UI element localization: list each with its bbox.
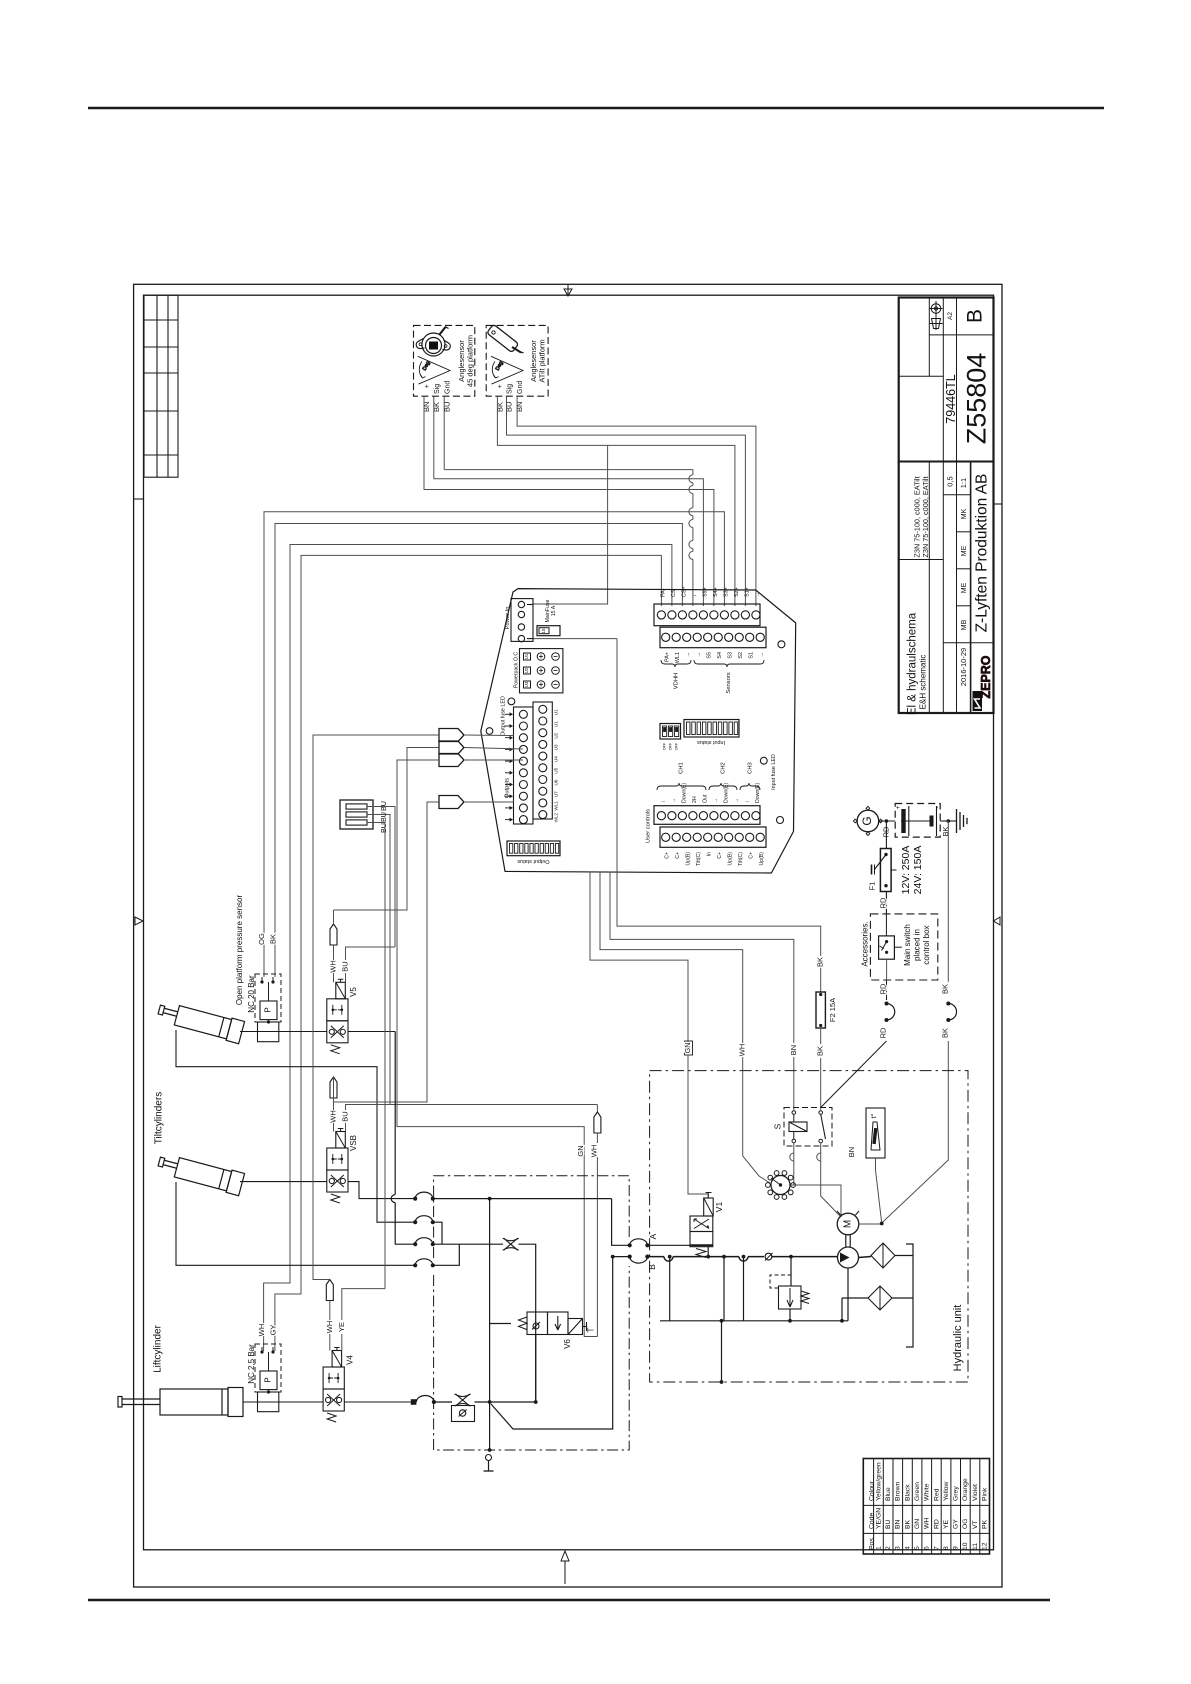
svg-text:CH1: CH1 bbox=[679, 762, 685, 774]
tank return risers bbox=[669, 1257, 671, 1321]
svg-text:Input fuse LED: Input fuse LED bbox=[771, 754, 777, 790]
svg-text:VSB: VSB bbox=[349, 1135, 358, 1151]
svg-text:12: 12 bbox=[982, 1542, 989, 1550]
svg-text:VT: VT bbox=[972, 1520, 979, 1529]
riser V6 feed bbox=[489, 1199, 491, 1402]
svg-text:V1: V1 bbox=[714, 1202, 724, 1213]
svg-text:GN: GN bbox=[576, 1145, 585, 1156]
terminal strip sensors row 1 bbox=[654, 604, 760, 626]
connector pill V6 WH bbox=[594, 1112, 601, 1133]
svg-text:→: → bbox=[755, 592, 761, 597]
coupling RD bbox=[885, 1002, 889, 1006]
wire junction to tank vent bbox=[489, 1402, 491, 1450]
svg-text:M: M bbox=[843, 1220, 854, 1228]
LED bar output status bbox=[507, 841, 560, 856]
svg-text:Open platform pressure sensor: Open platform pressure sensor bbox=[235, 895, 244, 1006]
terminal strip user controls row 2 bbox=[660, 827, 766, 847]
wire sensor1 BK bbox=[434, 396, 704, 606]
temperature sensor t bbox=[866, 1108, 885, 1158]
svg-text:ME: ME bbox=[961, 582, 968, 593]
valve V4 spring bbox=[327, 1413, 336, 1422]
svg-text:Gnd: Gnd bbox=[444, 381, 451, 394]
wire plug2 to V5 coil bbox=[334, 748, 440, 911]
wire restrictor to drop bbox=[518, 1244, 535, 1402]
svg-text:MB: MB bbox=[961, 619, 968, 630]
svg-text:Z-Lyften Produktion AB: Z-Lyften Produktion AB bbox=[974, 474, 991, 633]
wire battery to ground bbox=[940, 820, 956, 822]
brace CH3 bbox=[740, 783, 760, 790]
svg-text:BN: BN bbox=[895, 1519, 902, 1529]
wire power feed 2 bbox=[533, 638, 617, 640]
wire pump to filter bbox=[859, 1257, 872, 1258]
wire WH to thermal switch bbox=[743, 1057, 770, 1183]
svg-text:15: 15 bbox=[541, 628, 546, 634]
svg-text:ME: ME bbox=[961, 545, 968, 556]
wire BN from PCB bbox=[610, 871, 794, 1043]
svg-text:C+: C+ bbox=[717, 852, 723, 859]
svg-text:U2: U2 bbox=[554, 732, 559, 738]
anglesensor 45 deg platform box bbox=[414, 325, 475, 396]
svg-text:BU: BU bbox=[379, 812, 388, 822]
wire relay to motor bbox=[821, 1143, 841, 1217]
svg-text:GN: GN bbox=[914, 1519, 921, 1529]
anglesensor ATilt platform box bbox=[486, 325, 548, 396]
svg-text:WH: WH bbox=[328, 1110, 337, 1123]
svg-text:Yellow/green: Yellow/green bbox=[875, 1462, 882, 1501]
svg-text:U7: U7 bbox=[554, 791, 559, 797]
svg-text:Hydraulic unit: Hydraulic unit bbox=[952, 1305, 964, 1372]
svg-text:Accessories.: Accessories. bbox=[860, 921, 869, 966]
svg-text:U6: U6 bbox=[554, 779, 559, 785]
wire t sensor to junction bbox=[876, 1158, 882, 1223]
svg-text:WL1: WL1 bbox=[675, 652, 681, 663]
anglesensor ATilt labels bbox=[497, 381, 524, 394]
tank rail bbox=[660, 1320, 848, 1322]
wire tilt1 rod line bbox=[176, 1030, 415, 1222]
centre arrow bottom bbox=[561, 1551, 569, 1584]
wire tilt2 piston to hops bbox=[348, 1182, 415, 1199]
coupling row 1 bbox=[413, 1197, 417, 1201]
wire power feed 1 bbox=[533, 445, 608, 604]
PCB mounting hole left bbox=[486, 728, 493, 735]
svg-text:CH3: CH3 bbox=[748, 762, 754, 774]
svg-text:Output fuse LED: Output fuse LED bbox=[500, 696, 506, 736]
wire plug4 to VSB coil bbox=[334, 802, 440, 1102]
wire VSB BU extension bbox=[390, 1104, 597, 1106]
wire GY riser bbox=[275, 555, 662, 1351]
svg-text:GN: GN bbox=[683, 1043, 692, 1054]
wire V6 WH to solenoid bbox=[596, 1133, 598, 1143]
wire row4 stub bbox=[433, 1244, 460, 1265]
wire BN to relay bbox=[793, 1057, 795, 1110]
connector pill V5 bbox=[330, 924, 337, 945]
label GN boxed bbox=[685, 1041, 693, 1055]
output plug 3 bbox=[439, 754, 464, 767]
svg-text:S5+: S5+ bbox=[702, 587, 708, 597]
svg-text:P: P bbox=[264, 1377, 273, 1382]
wire relief to tank bbox=[789, 1309, 791, 1321]
svg-text:NC 2,5 Bar: NC 2,5 Bar bbox=[247, 1344, 256, 1384]
svg-text:U1: U1 bbox=[524, 653, 529, 659]
wire RD below accessories bbox=[886, 980, 888, 1000]
wire lift branch to port B bbox=[491, 1257, 613, 1429]
wire V4 coil WH bbox=[329, 1301, 331, 1321]
svg-text:In: In bbox=[707, 852, 713, 856]
wire OG riser bbox=[264, 512, 724, 977]
svg-text:↓: ↓ bbox=[692, 594, 698, 597]
svg-text:CH2: CH2 bbox=[721, 762, 727, 774]
svg-text:8: 8 bbox=[943, 1546, 950, 1550]
coupling relay wire 2 bbox=[817, 1153, 821, 1161]
wire V1 bottom port drop bbox=[707, 1247, 709, 1257]
wire motor junction bbox=[859, 1223, 882, 1225]
coupling row 4 bbox=[413, 1263, 417, 1267]
svg-text:BU: BU bbox=[442, 402, 451, 412]
wire BU conn to V4 bbox=[367, 823, 385, 1289]
svg-text:12V: 250A: 12V: 250A bbox=[900, 846, 912, 895]
svg-text:↓: ↓ bbox=[660, 800, 666, 803]
wire RD diagonal to relay bbox=[821, 1041, 887, 1108]
relay S contacts bbox=[792, 1111, 796, 1115]
svg-text:S1+: S1+ bbox=[744, 587, 750, 597]
svg-text:U5: U5 bbox=[554, 767, 559, 773]
wire row1 to line A bbox=[433, 1198, 612, 1200]
first-angle projection symbol bbox=[930, 301, 943, 330]
wire V4 line to coupling bbox=[344, 1401, 411, 1403]
coupling BK bbox=[946, 1002, 950, 1006]
wire GN from PCB bbox=[590, 871, 688, 1045]
svg-text:WH: WH bbox=[924, 1518, 931, 1529]
svg-text:BK: BK bbox=[268, 934, 277, 944]
outer sheet frame bbox=[134, 284, 1002, 1587]
svg-text:S5: S5 bbox=[707, 652, 713, 659]
title block frame bbox=[899, 298, 994, 714]
svg-text:+: + bbox=[895, 805, 902, 809]
valve V6 spring bbox=[519, 1317, 528, 1330]
svg-text:ATilt platform: ATilt platform bbox=[537, 339, 546, 382]
tank rail drop bbox=[721, 1321, 723, 1382]
pump bbox=[838, 1247, 859, 1268]
svg-text:2016-10-29: 2016-10-29 bbox=[959, 648, 968, 686]
wire V6 port bbox=[490, 1323, 511, 1325]
svg-text:→: → bbox=[671, 798, 677, 803]
filter 2 out bbox=[892, 1297, 913, 1299]
svg-text:OG: OG bbox=[257, 933, 266, 945]
valve V6 body bbox=[527, 1312, 568, 1335]
svg-text:BN: BN bbox=[789, 1045, 798, 1055]
svg-text:BU: BU bbox=[504, 402, 513, 412]
svg-text:S2: S2 bbox=[738, 652, 744, 659]
fuse switch F1 bbox=[880, 849, 891, 892]
wire sensor2 BN bbox=[517, 396, 756, 606]
svg-text:PK: PK bbox=[982, 1519, 989, 1529]
wire VSB coil WH bbox=[333, 1098, 335, 1110]
wire BK to relay bbox=[820, 1028, 822, 1044]
PCB mounting hole top-right bbox=[778, 641, 785, 648]
svg-text:BN: BN bbox=[847, 1147, 856, 1157]
svg-text:10: 10 bbox=[962, 1542, 969, 1550]
valve V6 solenoid bbox=[568, 1319, 587, 1335]
pump suction bbox=[847, 1268, 849, 1321]
svg-text:2: 2 bbox=[885, 1546, 892, 1550]
brace Sensors bbox=[694, 660, 764, 667]
svg-text:1: 1 bbox=[875, 1546, 882, 1550]
tank vent symbol bbox=[486, 1455, 492, 1461]
reservoir bracket bbox=[906, 1244, 913, 1347]
svg-text:BU: BU bbox=[379, 823, 388, 833]
valve V1 port line bbox=[690, 1244, 713, 1246]
svg-text:CS: CS bbox=[671, 589, 677, 597]
svg-text:U3: U3 bbox=[554, 744, 559, 750]
motor shaft bbox=[845, 1235, 847, 1247]
svg-text:BK: BK bbox=[495, 402, 504, 412]
wire stubs PCB outputs to plugs bbox=[464, 734, 514, 737]
svg-text:B: B bbox=[647, 1264, 657, 1270]
svg-text:CS+: CS+ bbox=[681, 586, 687, 597]
svg-text:0,5: 0,5 bbox=[945, 476, 954, 486]
wire BU conn to VSB bbox=[367, 815, 390, 1105]
centre arrow top bbox=[564, 285, 572, 296]
valve VSB solenoid bbox=[336, 1132, 346, 1149]
svg-text:45 deg platform: 45 deg platform bbox=[465, 335, 474, 387]
PCB mounting hole bottom-right bbox=[777, 817, 784, 824]
wire BK to fuse F2 bbox=[820, 968, 822, 992]
tilt cylinder 1 bbox=[156, 999, 245, 1043]
svg-text:C+: C+ bbox=[665, 852, 671, 859]
wire relief feed bbox=[790, 1257, 792, 1286]
svg-text:WH: WH bbox=[738, 1044, 747, 1057]
svg-text:Out: Out bbox=[702, 794, 708, 803]
svg-text:U1: U1 bbox=[554, 721, 559, 727]
coupling row 3 bbox=[413, 1242, 417, 1246]
valve manifold dashed box bbox=[434, 1176, 630, 1258]
anglesensor ATilt wire labels bbox=[495, 402, 524, 412]
svg-text:Outputs: Outputs bbox=[505, 778, 511, 798]
svg-text:Brown: Brown bbox=[895, 1482, 902, 1501]
valve V4 solenoid bbox=[332, 1351, 342, 1368]
wire tilt1 piston line bbox=[240, 1031, 327, 1033]
svg-text:RD: RD bbox=[878, 1027, 887, 1038]
svg-text:Powerpack O.C: Powerpack O.C bbox=[513, 652, 519, 689]
brace CH2 bbox=[709, 783, 737, 790]
svg-text:RD: RD bbox=[933, 1519, 940, 1529]
valve VSB body bbox=[327, 1148, 348, 1170]
svg-text:U4: U4 bbox=[554, 756, 559, 762]
svg-text:Grey: Grey bbox=[953, 1486, 960, 1501]
svg-text:Power In: Power In bbox=[505, 607, 511, 630]
svg-text:GY: GY bbox=[953, 1519, 960, 1529]
svg-text:79446TL: 79446TL bbox=[944, 374, 958, 423]
wire port A to V1 bbox=[647, 1244, 690, 1246]
svg-text:S3: S3 bbox=[728, 652, 734, 659]
svg-text:S: S bbox=[772, 1123, 782, 1129]
valve V4 body bbox=[323, 1367, 344, 1389]
connector Power In bbox=[511, 599, 533, 642]
valve V1 body bbox=[690, 1216, 713, 1232]
wire VSB WH to plug4 bbox=[333, 1101, 335, 1103]
svg-text:C+: C+ bbox=[675, 852, 681, 859]
svg-text:ZEPRO: ZEPRO bbox=[979, 655, 993, 698]
wire sensor2 BK bbox=[497, 396, 735, 606]
wire B line left link bbox=[613, 1256, 630, 1258]
svg-text:Up(B): Up(B) bbox=[759, 852, 765, 866]
pressure sensor lift NC 2,5 Bar bbox=[255, 1344, 281, 1392]
svg-text:Pos.: Pos. bbox=[868, 1536, 875, 1550]
svg-text:El & hydraulschema: El & hydraulschema bbox=[907, 612, 919, 715]
terminal strip user controls row 1 bbox=[654, 806, 760, 825]
valve V5 body bbox=[327, 999, 348, 1021]
svg-text:White: White bbox=[924, 1483, 931, 1501]
wire thermal to relay branch bbox=[791, 1185, 842, 1217]
LED output fuse bbox=[508, 698, 515, 705]
wire sensor1 BN bbox=[424, 396, 714, 606]
anglesensor 45 deg wire labels bbox=[422, 402, 451, 412]
anglesensor 45 deg angle V symbol bbox=[418, 356, 450, 384]
svg-text:OFF: OFF bbox=[663, 742, 667, 750]
svg-text:NC 20 Bar: NC 20 Bar bbox=[247, 975, 256, 1013]
wire BK battery drop bbox=[947, 821, 949, 983]
svg-text:E&H schematic: E&H schematic bbox=[919, 655, 928, 710]
valve V5 solenoid bbox=[336, 982, 346, 999]
svg-text:G: G bbox=[860, 816, 874, 825]
page bottom rule bbox=[88, 1599, 1050, 1601]
relay S box bbox=[784, 1108, 832, 1147]
svg-text:Z55804: Z55804 bbox=[962, 353, 992, 445]
svg-text:Orange: Orange bbox=[962, 1478, 969, 1501]
svg-text:Pink: Pink bbox=[982, 1487, 989, 1501]
svg-text:11: 11 bbox=[972, 1543, 979, 1550]
svg-text:Red: Red bbox=[933, 1488, 940, 1501]
valve V1 solenoid bbox=[704, 1198, 714, 1216]
DIP switch block bbox=[660, 724, 681, 740]
svg-text:control box: control box bbox=[922, 925, 931, 964]
svg-text:Colour: Colour bbox=[868, 1480, 875, 1501]
wire BU conn to V5 bbox=[367, 807, 395, 948]
wire WH riser bbox=[264, 545, 672, 1352]
svg-text:+: + bbox=[497, 384, 504, 388]
svg-text:5: 5 bbox=[914, 1546, 921, 1550]
svg-text:WH: WH bbox=[257, 1324, 266, 1337]
wire G to battery bbox=[879, 820, 896, 822]
svg-text:RD: RD bbox=[878, 897, 887, 908]
wire colour code table bbox=[863, 1459, 989, 1555]
connector Outputs column A bbox=[514, 707, 534, 824]
wire row2 stub bbox=[433, 1222, 442, 1244]
svg-text:U1: U1 bbox=[554, 709, 559, 715]
pressure sensor open platform bbox=[255, 974, 281, 1022]
svg-text:BN: BN bbox=[422, 402, 431, 412]
valve V1 spring bbox=[696, 1249, 706, 1258]
svg-text:Sig: Sig bbox=[434, 384, 441, 394]
svg-text:T: T bbox=[587, 1327, 596, 1332]
svg-text:Green: Green bbox=[914, 1482, 921, 1501]
anglesensor ATilt icon bbox=[487, 324, 524, 353]
svg-text:YE: YE bbox=[337, 1322, 346, 1332]
valve V5 spring bbox=[331, 1045, 340, 1054]
wire VSB coil BU bbox=[345, 1123, 347, 1132]
wire BK from PCB bbox=[617, 639, 821, 956]
svg-text:Liftcylinder: Liftcylinder bbox=[153, 1324, 164, 1372]
thermal breaker bbox=[771, 1176, 790, 1195]
LED bar input status bbox=[684, 720, 739, 738]
control unit PCB outline bbox=[481, 589, 796, 873]
svg-text:Violet: Violet bbox=[972, 1484, 979, 1501]
svg-text:Up(B): Up(B) bbox=[686, 852, 692, 866]
svg-text:7: 7 bbox=[933, 1546, 940, 1550]
svg-text:WH: WH bbox=[589, 1145, 598, 1158]
svg-text:Tilt(C): Tilt(C) bbox=[696, 852, 702, 866]
sheet centre tick left bbox=[134, 498, 144, 500]
wire RD battery to F1 bbox=[885, 821, 887, 849]
svg-text:Up(B): Up(B) bbox=[728, 852, 734, 866]
wire line A drop bbox=[612, 1199, 630, 1246]
wire port B to pump bbox=[647, 1257, 764, 1262]
wire V6 WH drop bbox=[596, 1105, 598, 1113]
svg-text:Black: Black bbox=[904, 1484, 911, 1501]
wire lift cylinder line bbox=[243, 1401, 323, 1403]
wire V5 drop to row3 bbox=[391, 1032, 415, 1245]
svg-text:F1: F1 bbox=[868, 882, 877, 891]
svg-text:Blue: Blue bbox=[885, 1487, 892, 1501]
svg-text:+: + bbox=[424, 384, 431, 388]
svg-text:OG: OG bbox=[962, 1518, 969, 1529]
svg-text:→: → bbox=[686, 652, 692, 657]
svg-text:S4: S4 bbox=[717, 652, 723, 659]
filter 2 in bbox=[842, 1297, 868, 1299]
svg-text:YE/GN: YE/GN bbox=[875, 1508, 882, 1529]
wire tilt2 rod line bbox=[176, 1182, 415, 1265]
svg-text:MK: MK bbox=[961, 508, 968, 519]
svg-text:WH: WH bbox=[328, 960, 337, 973]
svg-text:BN: BN bbox=[515, 402, 524, 412]
svg-text:4: 4 bbox=[904, 1546, 911, 1550]
terminal strip sensors row 2 bbox=[660, 627, 766, 648]
svg-text:P: P bbox=[264, 1007, 273, 1012]
svg-text:BK: BK bbox=[816, 1046, 825, 1056]
port A coupling bbox=[628, 1243, 632, 1247]
wire tilt1 piston to hops bbox=[348, 1031, 395, 1033]
relay S coil bbox=[789, 1122, 807, 1132]
svg-text:t°: t° bbox=[869, 1113, 878, 1118]
fuse MainFuse 15 A bbox=[537, 626, 560, 636]
page top rule bbox=[88, 107, 1104, 109]
sheet centre tick right bbox=[994, 503, 1003, 505]
svg-text:BK: BK bbox=[816, 957, 825, 967]
wire plug3 to V6 GN bbox=[397, 760, 597, 1337]
check valve on B line bbox=[765, 1253, 772, 1260]
svg-text:RD: RD bbox=[878, 983, 887, 994]
svg-text:→: → bbox=[759, 652, 765, 657]
wire tilt2 piston line bbox=[240, 1181, 327, 1183]
svg-text:U3: U3 bbox=[524, 681, 529, 687]
svg-text:15 A: 15 A bbox=[551, 605, 557, 616]
fuse F2 15A bbox=[816, 992, 825, 1028]
wire check to junction bbox=[475, 1401, 536, 1403]
svg-text:→: → bbox=[713, 798, 719, 803]
filter 1 out bbox=[895, 1255, 913, 1257]
svg-text:YE: YE bbox=[943, 1519, 950, 1529]
svg-text:Tiltcylinders: Tiltcylinders bbox=[154, 1092, 165, 1144]
svg-text:VDHH: VDHH bbox=[674, 673, 680, 689]
wire relay to thermal bbox=[791, 1143, 794, 1185]
main switch bbox=[879, 936, 895, 959]
connector pill V4 bbox=[326, 1280, 333, 1301]
powerpack output connector bbox=[520, 649, 563, 693]
connector 3-pole BU bbox=[340, 800, 373, 829]
svg-text:S4+: S4+ bbox=[713, 587, 719, 597]
svg-text:A2: A2 bbox=[947, 312, 954, 320]
output plug 1 bbox=[439, 729, 464, 742]
